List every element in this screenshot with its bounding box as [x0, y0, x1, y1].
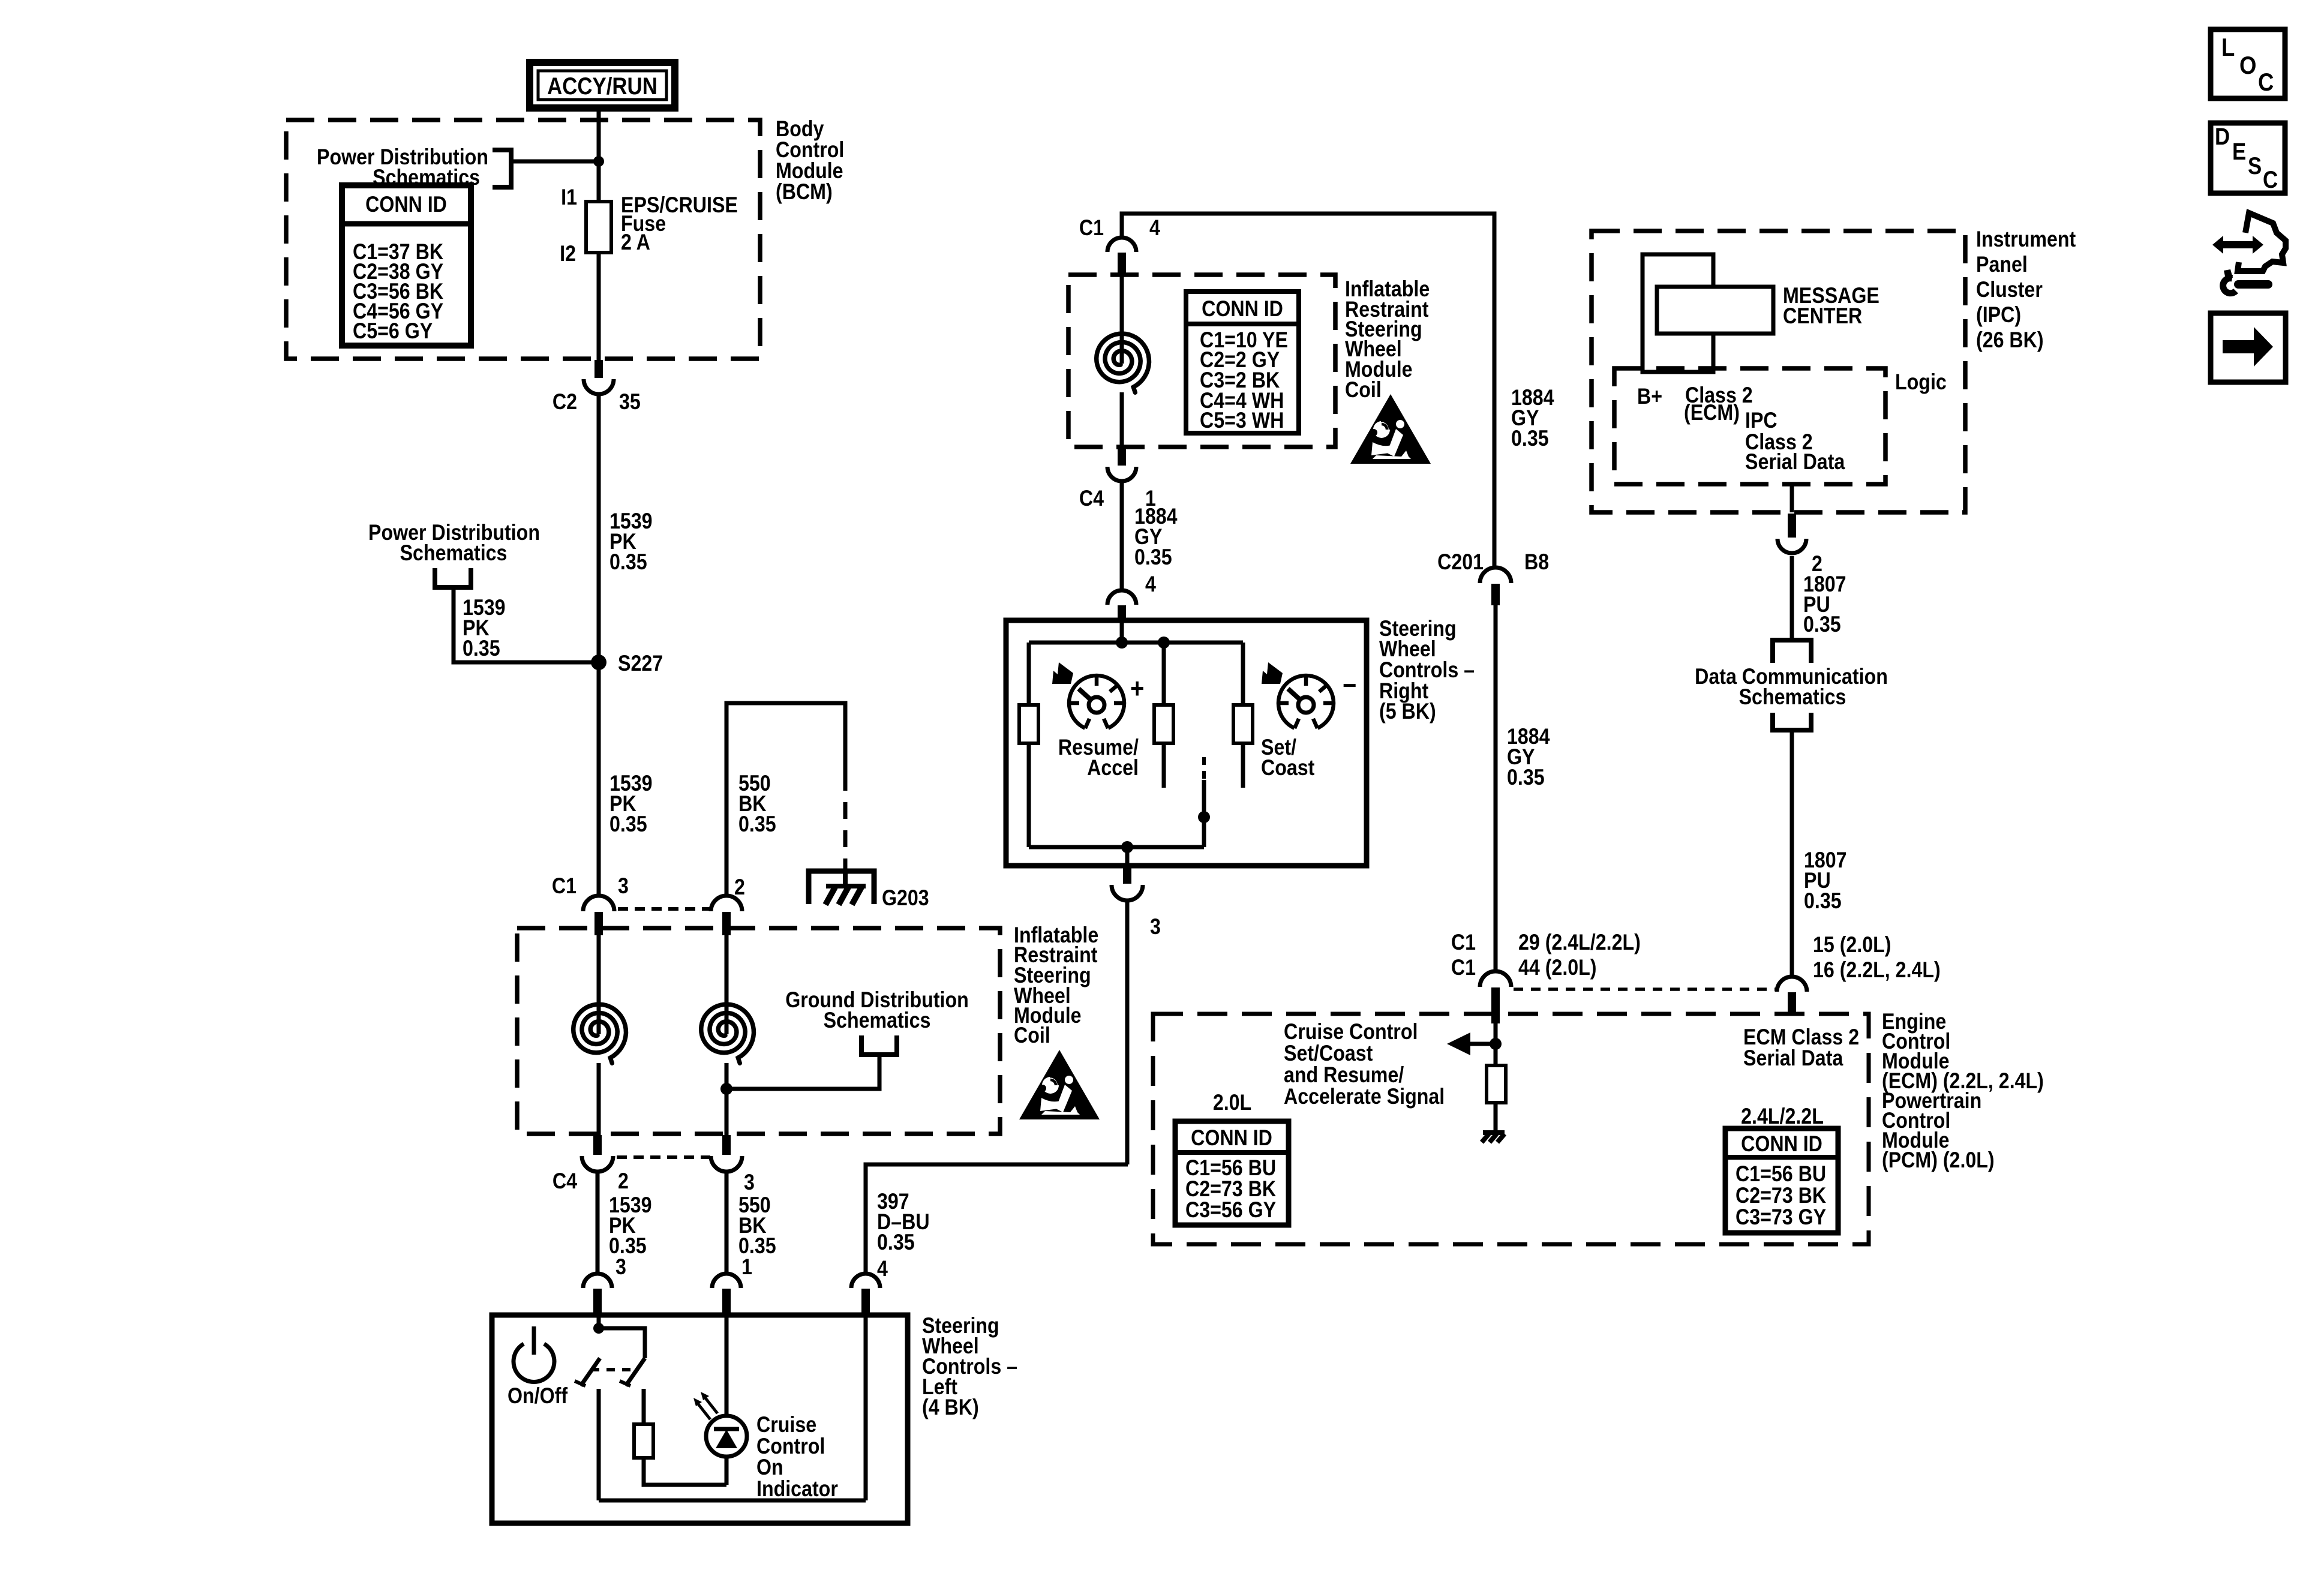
svg-text:35: 35 — [619, 390, 641, 415]
wire IPC to bracket — [1790, 556, 1794, 640]
table CONN ID (2.0L) — [1175, 1121, 1289, 1225]
wire resistor to LED — [644, 1458, 726, 1485]
wire into SWC-R — [1120, 620, 1124, 643]
icon LOC box — [2211, 29, 2285, 98]
svg-text:Coil: Coil — [1014, 1023, 1050, 1048]
connector C4 pin 2 — [593, 1135, 602, 1155]
svg-text:Cruise: Cruise — [756, 1413, 816, 1437]
svg-text:0.35: 0.35 — [1134, 545, 1172, 570]
svg-text:3: 3 — [615, 1255, 626, 1280]
svg-text:C1: C1 — [1451, 930, 1476, 955]
icon DESC box — [2211, 123, 2285, 193]
fuse EPS/CRUISE 2A — [586, 202, 611, 253]
svg-text:C: C — [2263, 166, 2278, 193]
svg-text:Panel: Panel — [1976, 253, 2028, 277]
branch resume resistor — [1162, 643, 1166, 705]
switch blade right — [626, 1358, 645, 1386]
svg-text:I2: I2 — [560, 242, 576, 266]
coil L3 spiral — [1097, 334, 1149, 392]
table CONN ID (coil) — [1186, 292, 1299, 433]
svg-text:(BCM): (BCM) — [776, 180, 833, 205]
wire into coil 3 — [1120, 275, 1124, 364]
connector link dashes ECM — [1514, 987, 1776, 991]
svg-text:Logic: Logic — [1895, 370, 1947, 395]
svg-text:Coil: Coil — [1345, 378, 1382, 403]
switch loop top — [1029, 641, 1243, 645]
svg-text:4: 4 — [1149, 216, 1161, 241]
off-page bracket ground distribution — [861, 1035, 897, 1055]
svg-text:0.35: 0.35 — [738, 812, 776, 837]
node BCM feed junction — [593, 156, 604, 167]
wire bracket to coil2 — [726, 1055, 879, 1089]
svg-text:Coast: Coast — [1261, 756, 1315, 781]
svg-text:CONN ID: CONN ID — [1191, 1126, 1272, 1151]
node S227 — [591, 655, 606, 670]
svg-text:29 (2.4L/2.2L): 29 (2.4L/2.2L) — [1518, 930, 1641, 955]
svg-text:Cluster: Cluster — [1976, 278, 2043, 302]
svg-text:44 (2.0L): 44 (2.0L) — [1518, 956, 1597, 980]
LED cruise indicator — [725, 1315, 729, 1416]
off-page bracket power distribution — [493, 150, 511, 187]
svg-text:3: 3 — [1150, 915, 1161, 939]
connector C4 pin 3 — [722, 1135, 731, 1155]
connector SWC-R pin 3 out — [1123, 865, 1131, 884]
svg-text:CONN ID: CONN ID — [1202, 297, 1283, 322]
wire into switch — [597, 1315, 601, 1328]
svg-text:On/Off: On/Off — [508, 1384, 568, 1409]
svg-text:S: S — [2248, 152, 2262, 179]
switch linkage dashes — [591, 1368, 635, 1371]
svg-text:(26 BK): (26 BK) — [1976, 328, 2044, 353]
wire bracket to ECM — [1790, 730, 1794, 977]
icon airbag warning triangle (top) — [1350, 394, 1431, 464]
connector SWC-L pin 3 — [583, 1274, 612, 1288]
icon wrench and arrows — [2212, 236, 2263, 254]
svg-text:and Resume/: and Resume/ — [1284, 1063, 1404, 1088]
wire right pole to resistor — [642, 1389, 646, 1424]
node switch pole contact — [1198, 811, 1210, 823]
svg-text:(IPC): (IPC) — [1976, 303, 2021, 328]
icon arrow box — [2211, 313, 2286, 382]
svg-text:16 (2.2L, 2.4L): 16 (2.2L, 2.4L) — [1813, 958, 1941, 983]
node loop feed — [1116, 637, 1128, 649]
wire ECM input — [1494, 1023, 1498, 1065]
svg-text:C201: C201 — [1437, 550, 1484, 575]
resistor ECM pulldown — [1487, 1065, 1506, 1103]
wire C4-1 down — [1120, 482, 1124, 589]
wire bottom bus — [599, 1499, 866, 1503]
svg-text:CONN ID: CONN ID — [365, 193, 447, 217]
svg-text:ACCY/RUN: ACCY/RUN — [547, 73, 657, 100]
connector SWC-L pin 4 — [851, 1274, 880, 1288]
connector C1 pin 3 — [583, 896, 614, 911]
module box SWC-Left — [492, 1315, 908, 1523]
svg-text:(PCM) (2.0L): (PCM) (2.0L) — [1882, 1148, 1995, 1173]
svg-text:CONN ID: CONN ID — [1741, 1132, 1822, 1157]
svg-text:C4: C4 — [1079, 487, 1104, 511]
svg-text:Schematics: Schematics — [824, 1008, 931, 1033]
switch loop left — [1027, 643, 1031, 847]
svg-text:C3=73 GY: C3=73 GY — [1736, 1205, 1826, 1230]
svg-text:O: O — [2239, 52, 2256, 80]
off-page bracket data comm (upper) — [1773, 640, 1811, 663]
svg-text:S227: S227 — [618, 652, 663, 676]
svg-text:2.4L/2.2L: 2.4L/2.2L — [1741, 1104, 1824, 1129]
table CONN ID (BCM) — [342, 185, 471, 346]
connector C201 B8 — [1480, 568, 1511, 583]
svg-text:Accelerate Signal: Accelerate Signal — [1284, 1085, 1445, 1109]
icon flag arrow right — [1262, 662, 1283, 684]
connector pin 2 — [711, 896, 742, 911]
svg-text:+: + — [1130, 673, 1144, 704]
resistor SWC-R left — [1019, 705, 1038, 743]
svg-text:2: 2 — [734, 875, 745, 900]
signal arrow — [1470, 1042, 1496, 1046]
table CONN ID (2.4L/2.2L) — [1725, 1128, 1838, 1233]
svg-text:C5=3 WH: C5=3 WH — [1200, 409, 1284, 433]
connector SWC-L pin 1 — [712, 1274, 741, 1288]
icon message center display — [1643, 254, 1713, 372]
LED arrows — [697, 1403, 710, 1419]
wire left pole down — [597, 1389, 601, 1500]
connector link dashes C4 — [617, 1155, 710, 1159]
wire dashed to G203 — [843, 774, 848, 871]
svg-text:3: 3 — [744, 1170, 755, 1195]
svg-text:4: 4 — [1145, 572, 1157, 597]
icon gauge resume/accel — [1069, 676, 1124, 728]
svg-text:0.35: 0.35 — [609, 1234, 647, 1259]
svg-text:−: − — [1343, 670, 1356, 701]
svg-text:CENTER: CENTER — [1783, 304, 1862, 329]
wire SWC-R pin3 down — [1125, 899, 1130, 1164]
svg-text:0.35: 0.35 — [463, 637, 500, 661]
svg-text:Instrument: Instrument — [1976, 227, 2076, 252]
svg-text:C1: C1 — [1079, 216, 1104, 241]
svg-text:Accel: Accel — [1087, 756, 1139, 781]
svg-text:C2=73 BK: C2=73 BK — [1736, 1184, 1826, 1208]
node coil2 ground junction — [720, 1083, 732, 1095]
node branch2 feed — [1158, 637, 1170, 649]
node switch feed — [593, 1323, 604, 1334]
svg-text:C1: C1 — [552, 874, 577, 899]
ground G203 — [809, 871, 874, 904]
module box BCM (dashed) — [286, 120, 760, 359]
svg-text:C3=56 GY: C3=56 GY — [1185, 1198, 1276, 1223]
wire 397 D-BU — [866, 1164, 1128, 1273]
svg-text:0.35: 0.35 — [609, 550, 647, 575]
svg-text:C1: C1 — [1451, 956, 1476, 980]
svg-text:2 A: 2 A — [621, 230, 650, 255]
svg-text:0.35: 0.35 — [1507, 766, 1545, 790]
connector link dashes C1 — [618, 907, 710, 911]
svg-text:0.35: 0.35 — [1511, 427, 1549, 451]
svg-text:2: 2 — [618, 1169, 629, 1194]
connector IPC pin 2 — [1788, 514, 1796, 538]
module box SWC-Right — [1006, 620, 1367, 866]
wire C201 down — [1494, 605, 1498, 970]
connector ECM C1 pin 29/44 — [1480, 971, 1511, 987]
wire coil3 down — [1120, 392, 1124, 448]
wire pin4 branch — [864, 1315, 868, 1500]
svg-text:C: C — [2258, 68, 2274, 97]
connector ECM pin 15/16 — [1777, 977, 1807, 992]
svg-text:Schematics: Schematics — [1739, 685, 1846, 710]
svg-text:L: L — [2221, 34, 2235, 62]
svg-text:IPC: IPC — [1745, 409, 1777, 433]
wire C4-2 down — [596, 1170, 600, 1273]
connector C4 pin 1 — [1118, 449, 1126, 466]
wire coil1 to C4 — [597, 1063, 601, 1135]
wire C4-3 down — [725, 1170, 729, 1273]
switch loop bottom — [1029, 845, 1204, 849]
svg-text:3: 3 — [618, 874, 629, 899]
wire fuse to C2 — [597, 253, 601, 361]
svg-text:2.0L: 2.0L — [1213, 1091, 1251, 1115]
wire 550 BK up-over — [726, 703, 845, 896]
svg-text:Serial Data: Serial Data — [1745, 450, 1845, 475]
wire coil2 down — [725, 1063, 729, 1135]
module box SRS coil top (dashed) — [1068, 275, 1335, 447]
wire to right pole — [599, 1328, 645, 1358]
svg-text:0.35: 0.35 — [609, 812, 647, 837]
connector C2 pin 35 — [594, 360, 603, 378]
branch set resistor — [1241, 643, 1245, 705]
svg-text:0.35: 0.35 — [1804, 889, 1842, 914]
coil L1 spiral — [574, 1004, 626, 1063]
switch pole — [1202, 780, 1206, 847]
icon airbag warning triangle (left) — [1019, 1050, 1100, 1119]
module box SRS coil left (dashed) — [517, 928, 1000, 1134]
svg-text:E: E — [2232, 138, 2246, 165]
switch blade left — [581, 1358, 600, 1386]
node loop exit — [1121, 841, 1133, 853]
svg-text:Schematics: Schematics — [400, 541, 508, 566]
off-page bracket power distribution left — [435, 568, 471, 587]
module box IPC (dashed) — [1592, 231, 1965, 512]
svg-text:Cruise Control: Cruise Control — [1284, 1020, 1418, 1044]
icon gauge set/coast — [1278, 676, 1334, 728]
wire into coil 2 — [725, 933, 729, 1034]
svg-text:C5=6 GY: C5=6 GY — [353, 319, 433, 344]
svg-text:C2: C2 — [553, 390, 577, 415]
connector C1 pin 4 — [1107, 238, 1136, 252]
wire C2 to S227 — [597, 394, 601, 662]
svg-text:(5 BK): (5 BK) — [1379, 700, 1436, 724]
svg-text:B8: B8 — [1524, 550, 1549, 575]
power feed box ACCY/RUN — [530, 62, 675, 108]
logic box (dashed) — [1614, 368, 1885, 484]
resistor SWC-L — [634, 1424, 653, 1458]
svg-text:0.35: 0.35 — [1803, 613, 1841, 637]
svg-text:(ECM): (ECM) — [1684, 401, 1740, 425]
wire SWC-R exit — [1125, 847, 1130, 866]
svg-text:D: D — [2215, 123, 2230, 150]
wire bracket to S227 — [454, 587, 599, 662]
svg-text:Serial Data: Serial Data — [1743, 1046, 1843, 1071]
svg-text:1: 1 — [741, 1255, 752, 1280]
switch pole dashes — [1202, 757, 1206, 780]
svg-text:Indicator: Indicator — [756, 1477, 838, 1502]
svg-text:0.35: 0.35 — [877, 1230, 915, 1255]
wire S227 to C1 — [597, 662, 601, 896]
icon power on/off — [514, 1344, 554, 1382]
wire IPC out — [1790, 484, 1794, 512]
wire junction to bracket — [511, 160, 599, 164]
svg-text:15 (2.0L): 15 (2.0L) — [1813, 933, 1891, 957]
svg-text:B+: B+ — [1637, 385, 1662, 409]
connector SWC-R pin 4 — [1107, 590, 1136, 605]
svg-text:(4 BK): (4 BK) — [922, 1395, 979, 1420]
node ECM signal junction — [1490, 1038, 1502, 1050]
module box ECM (dashed) — [1153, 1014, 1869, 1244]
ground ECM internal — [1483, 1130, 1505, 1135]
wire ACCY/RUN to fuse — [597, 108, 601, 202]
svg-text:G203: G203 — [882, 886, 929, 911]
wire top horizontal — [1122, 214, 1494, 568]
coil L2 spiral — [701, 1004, 754, 1063]
svg-text:4: 4 — [877, 1257, 888, 1281]
icon flag arrow left — [1052, 662, 1073, 684]
svg-text:C1=56 BU: C1=56 BU — [1736, 1162, 1826, 1187]
svg-text:Set/Coast: Set/Coast — [1284, 1041, 1373, 1066]
wire into coil 1 — [597, 933, 601, 1034]
wire resistor to ground — [1494, 1103, 1498, 1133]
svg-text:On: On — [756, 1455, 783, 1480]
svg-text:C4: C4 — [553, 1169, 578, 1194]
off-page bracket data comm (lower) — [1773, 713, 1811, 730]
svg-text:I1: I1 — [561, 185, 577, 210]
